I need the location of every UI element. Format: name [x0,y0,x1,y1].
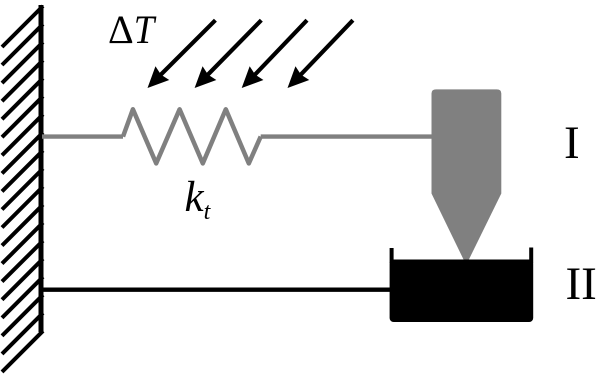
heat arrows [148,20,353,88]
svg-text:II: II [566,258,597,310]
wall hatching [2,6,43,372]
svg-text:ΔT: ΔT [108,7,157,52]
arrow A2 shaft [205,20,261,77]
arrow A3 head [242,66,264,88]
gray wire left (wall to spring) [42,134,123,138]
right lip [529,248,533,264]
spring k_t [123,109,261,163]
arrow A4 shaft [298,20,353,77]
arrow A2 head [195,66,217,88]
svg-text:I: I [564,117,580,169]
left lip [390,248,394,263]
indenter I (gray tip body) [432,89,502,265]
arrow A1 shaft [158,20,215,77]
arrow A3 shaft [252,20,307,77]
wall vertical line [39,5,44,332]
black wire (wall to block) [42,288,391,292]
gray wire right (spring to indenter) [261,134,433,138]
arrow A1 head [148,66,170,88]
specimen block II [390,260,534,323]
arrow A4 head [288,66,310,88]
